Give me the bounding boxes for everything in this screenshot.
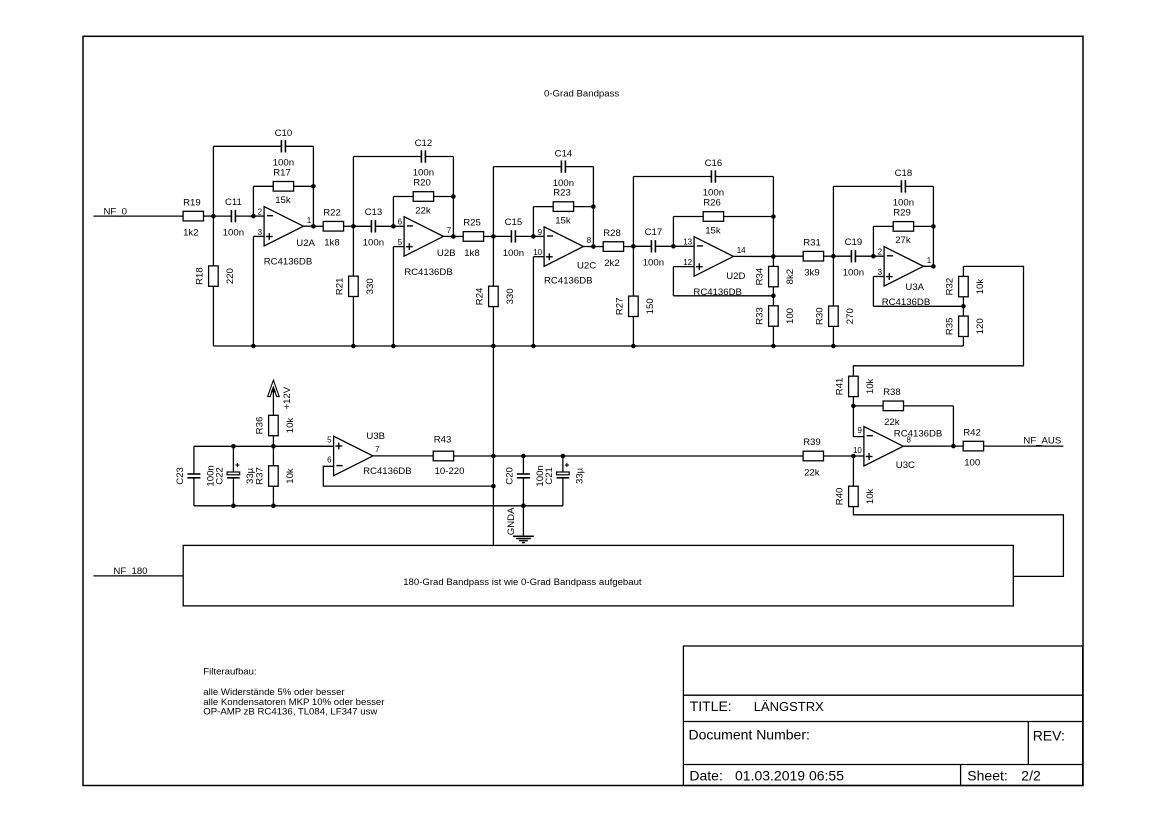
svg-text:7: 7: [375, 445, 380, 454]
svg-text:R40: R40: [835, 488, 846, 506]
svg-text:6: 6: [327, 456, 332, 465]
svg-text:GNDA: GNDA: [506, 507, 517, 535]
svg-text:C20: C20: [505, 467, 516, 485]
svg-text:3k9: 3k9: [804, 268, 819, 279]
svg-text:Document Number:: Document Number:: [689, 727, 810, 743]
svg-text:15k: 15k: [555, 215, 571, 226]
svg-text:7: 7: [447, 226, 452, 235]
svg-text:1k2: 1k2: [183, 227, 198, 238]
svg-text:RC4136DB: RC4136DB: [544, 275, 593, 286]
svg-text:100n: 100n: [643, 258, 664, 269]
svg-text:10k: 10k: [865, 488, 876, 504]
svg-text:270: 270: [845, 308, 856, 324]
svg-text:15k: 15k: [275, 195, 291, 206]
svg-text:1: 1: [927, 256, 932, 265]
svg-text:C12: C12: [415, 138, 433, 149]
svg-text:U2D: U2D: [726, 271, 745, 282]
svg-text:U2A: U2A: [296, 238, 315, 249]
svg-text:RC4136DB: RC4136DB: [894, 429, 943, 440]
svg-text:R33: R33: [755, 307, 766, 325]
svg-text:27k: 27k: [895, 235, 911, 246]
svg-text:R34: R34: [755, 267, 766, 285]
svg-text:R38: R38: [883, 387, 901, 398]
svg-text:10: 10: [853, 446, 862, 455]
svg-text:C17: C17: [645, 227, 663, 238]
svg-text:C13: C13: [365, 207, 383, 218]
svg-text:R41: R41: [835, 378, 846, 396]
svg-text:NF_0: NF_0: [104, 206, 127, 217]
svg-text:R42: R42: [963, 427, 981, 438]
svg-text:14: 14: [737, 246, 746, 255]
svg-text:220: 220: [225, 268, 236, 284]
svg-text:100n: 100n: [363, 238, 384, 249]
svg-text:100: 100: [964, 457, 980, 468]
svg-text:C11: C11: [225, 197, 242, 208]
svg-text:U3A: U3A: [905, 282, 924, 293]
svg-text:C10: C10: [275, 128, 293, 139]
svg-text:R27: R27: [615, 297, 626, 315]
svg-text:U3B: U3B: [366, 431, 385, 442]
svg-text:U3C: U3C: [896, 460, 915, 471]
svg-text:33µ: 33µ: [245, 467, 256, 484]
svg-text:R37: R37: [255, 467, 266, 485]
svg-text:R18: R18: [195, 267, 206, 285]
svg-text:R17: R17: [273, 167, 291, 178]
svg-text:R26: R26: [703, 198, 721, 209]
svg-text:RC4136DB: RC4136DB: [264, 256, 313, 267]
svg-text:100n: 100n: [843, 268, 864, 279]
svg-text:0-Grad Bandpass: 0-Grad Bandpass: [544, 88, 619, 99]
svg-text:10k: 10k: [865, 378, 876, 394]
svg-text:C21: C21: [544, 467, 555, 485]
svg-text:NF_180: NF_180: [113, 566, 147, 577]
svg-text:10k: 10k: [285, 468, 296, 484]
svg-text:3: 3: [878, 268, 883, 277]
svg-text:330: 330: [505, 288, 516, 304]
svg-text:C22: C22: [215, 467, 226, 485]
svg-text:OP-AMP zB RC4136, TL084, LF347: OP-AMP zB RC4136, TL084, LF347 usw: [203, 707, 377, 718]
svg-text:10: 10: [533, 248, 542, 257]
svg-text:Sheet:: Sheet:: [967, 768, 1007, 784]
svg-text:LÄNGSTRX: LÄNGSTRX: [754, 699, 824, 714]
svg-text:10k: 10k: [285, 418, 296, 434]
svg-text:R21: R21: [335, 277, 346, 295]
svg-text:01.03.2019 06:55: 01.03.2019 06:55: [735, 768, 844, 784]
svg-text:C19: C19: [845, 237, 863, 248]
svg-text:330: 330: [365, 278, 376, 294]
svg-text:R25: R25: [463, 218, 481, 229]
svg-text:Filteraufbau:: Filteraufbau:: [203, 666, 256, 677]
svg-text:REV:: REV:: [1033, 728, 1065, 744]
svg-text:C15: C15: [505, 217, 523, 228]
svg-text:R32: R32: [945, 278, 956, 296]
svg-text:150: 150: [645, 298, 656, 314]
svg-text:9: 9: [538, 228, 543, 237]
svg-text:R30: R30: [815, 307, 826, 325]
svg-text:15k: 15k: [705, 225, 721, 236]
svg-text:100: 100: [785, 308, 796, 324]
svg-text:6: 6: [398, 218, 403, 227]
svg-text:33µ: 33µ: [574, 467, 585, 484]
svg-text:R35: R35: [945, 317, 956, 335]
svg-text:TITLE:: TITLE:: [690, 698, 732, 714]
svg-text:10k: 10k: [975, 279, 986, 295]
svg-text:9: 9: [857, 426, 862, 435]
svg-text:1: 1: [307, 216, 312, 225]
svg-text:22k: 22k: [415, 205, 431, 216]
svg-text:R29: R29: [893, 208, 911, 219]
svg-text:5: 5: [398, 238, 403, 247]
svg-text:RC4136DB: RC4136DB: [404, 267, 453, 278]
svg-text:C23: C23: [175, 467, 186, 485]
svg-text:R36: R36: [255, 417, 266, 435]
svg-text:100n: 100n: [223, 228, 244, 239]
svg-text:R23: R23: [553, 188, 571, 199]
svg-text:R39: R39: [803, 437, 821, 448]
svg-text:RC4136DB: RC4136DB: [363, 466, 412, 477]
svg-text:22k: 22k: [884, 417, 900, 428]
svg-text:2: 2: [878, 248, 883, 257]
svg-text:+12V: +12V: [282, 386, 293, 409]
svg-text:22k: 22k: [804, 467, 820, 478]
svg-text:12: 12: [683, 258, 692, 267]
svg-text:2k2: 2k2: [604, 258, 619, 269]
svg-text:R24: R24: [475, 287, 486, 305]
svg-text:100n: 100n: [503, 248, 524, 259]
svg-text:10-220: 10-220: [435, 466, 465, 477]
svg-text:8: 8: [587, 236, 592, 245]
svg-text:13: 13: [683, 238, 692, 247]
svg-text:R28: R28: [603, 228, 621, 239]
svg-text:R31: R31: [803, 237, 821, 248]
svg-text:C14: C14: [555, 148, 573, 159]
svg-text:C18: C18: [895, 168, 913, 179]
svg-text:R43: R43: [434, 435, 452, 446]
svg-text:NF_AUS: NF_AUS: [1023, 436, 1061, 447]
svg-text:R20: R20: [413, 178, 431, 189]
svg-text:1k8: 1k8: [464, 248, 479, 259]
svg-text:R19: R19: [183, 197, 201, 208]
svg-text:U2B: U2B: [437, 248, 456, 259]
svg-text:U2C: U2C: [577, 261, 596, 272]
svg-text:8k2: 8k2: [785, 269, 796, 284]
svg-text:R22: R22: [323, 207, 341, 218]
svg-text:180-Grad Bandpass ist wie 0-Gr: 180-Grad Bandpass ist wie 0-Grad Bandpas…: [403, 577, 642, 588]
svg-text:5: 5: [327, 436, 332, 445]
svg-text:1k8: 1k8: [324, 238, 339, 249]
svg-text:2/2: 2/2: [1021, 768, 1041, 784]
svg-text:3: 3: [258, 228, 263, 237]
svg-text:120: 120: [975, 318, 986, 334]
svg-text:C16: C16: [705, 158, 723, 169]
svg-text:2: 2: [258, 208, 263, 217]
svg-text:Date:: Date:: [689, 768, 722, 784]
